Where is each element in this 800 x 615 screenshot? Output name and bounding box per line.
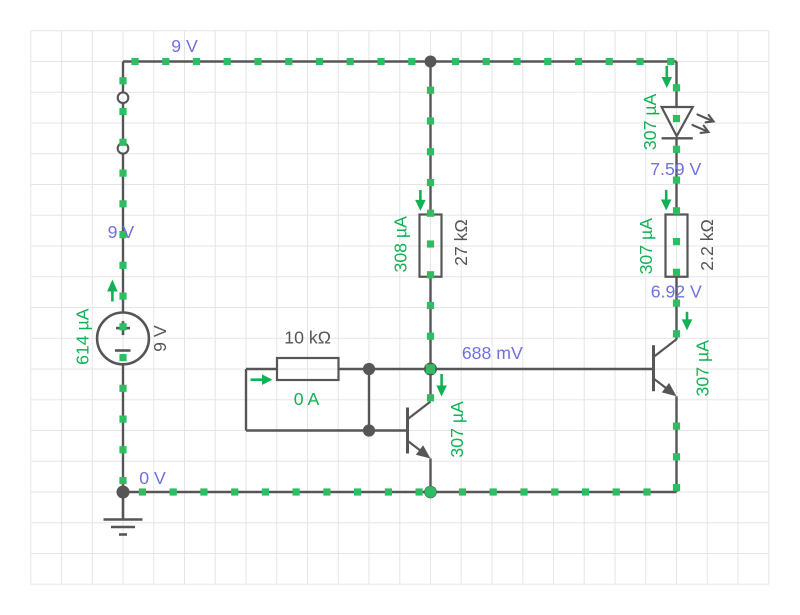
svg-text:614 µA: 614 µA: [72, 308, 92, 365]
svg-text:6.92 V: 6.92 V: [651, 282, 702, 302]
svg-text:27 kΩ: 27 kΩ: [451, 219, 471, 266]
svg-text:308 µA: 308 µA: [390, 216, 410, 273]
svg-text:10 kΩ: 10 kΩ: [284, 328, 331, 348]
svg-text:9 V: 9 V: [171, 36, 198, 56]
svg-text:0 A: 0 A: [294, 389, 320, 409]
svg-text:2.2 kΩ: 2.2 kΩ: [697, 219, 717, 271]
svg-text:307 µA: 307 µA: [447, 401, 467, 458]
svg-text:0 V: 0 V: [139, 468, 166, 488]
svg-text:307 µA: 307 µA: [693, 340, 713, 397]
svg-text:307 µA: 307 µA: [640, 93, 660, 150]
svg-text:7.59 V: 7.59 V: [650, 159, 701, 179]
svg-text:9 V: 9 V: [150, 325, 170, 352]
svg-text:688 mV: 688 mV: [462, 343, 523, 363]
svg-text:9 V: 9 V: [108, 222, 135, 242]
svg-text:307 µA: 307 µA: [636, 218, 656, 275]
